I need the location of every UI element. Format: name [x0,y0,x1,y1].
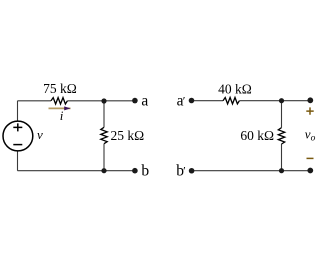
resistor 40 kOhm zigzag [223,98,239,104]
resistor 25 kOhm zigzag [101,127,107,143]
terminal b [132,168,138,174]
svg-text:v: v [37,127,43,142]
svg-text:40 kΩ: 40 kΩ [218,81,252,96]
wire: right middle vertical branch [281,101,283,171]
svg-text:b: b [141,163,149,180]
plus polarity mark [306,107,313,114]
svg-text:a: a [141,92,148,109]
svg-text:i: i [60,108,64,123]
node junction bottom [101,168,106,173]
node junction top [101,98,106,103]
terminal right top [307,97,313,103]
minus sign inside source [13,144,22,146]
svg-text:b′: b′ [176,163,186,180]
voltage source v [3,121,33,151]
wire: right circuit top rail [192,101,311,171]
node junction right bottom [279,168,284,173]
svg-text:vo: vo [305,126,316,143]
current arrow i [49,106,71,110]
wire: left vertical (source leads) [18,101,136,171]
svg-text:25 kΩ: 25 kΩ [111,128,145,143]
terminal b' [189,168,195,174]
minus polarity mark [307,157,314,159]
terminal a' [189,98,195,104]
resistor 75 kOhm zigzag [51,98,67,104]
resistor 60 kOhm zigzag [278,128,284,144]
svg-text:a′: a′ [177,92,186,109]
node junction right top [279,98,284,103]
wire: middle vertical branch [103,101,105,171]
svg-text:75 kΩ: 75 kΩ [43,81,77,96]
plus sign inside source [13,123,22,131]
terminal right bottom [307,168,313,174]
svg-text:60 kΩ: 60 kΩ [240,128,274,143]
terminal a [132,98,138,104]
wire: left circuit top rail [18,100,136,102]
